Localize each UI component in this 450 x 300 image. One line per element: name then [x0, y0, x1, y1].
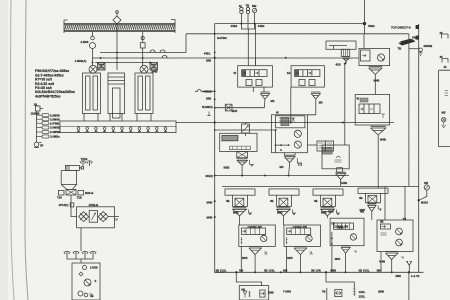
wire H2	[186, 33, 409, 35]
valve block VL2	[150, 63, 158, 71]
wire feeds to B4	[385, 186, 405, 220]
gauge G3	[253, 8, 257, 65]
servo block top right	[359, 34, 390, 67]
right edge box	[439, 70, 450, 146]
pump control box top-right	[326, 41, 356, 145]
spec text block	[35, 69, 75, 98]
solenoid block B1	[239, 225, 275, 272]
valve block M2B	[220, 133, 257, 158]
wire G2 drop	[247, 29, 249, 66]
below-bus right wire	[408, 272, 410, 300]
solenoid block B2	[284, 225, 321, 272]
wire filter to tank	[80, 228, 82, 251]
drain cascade	[297, 158, 301, 166]
node dots top	[214, 22, 367, 218]
sensor stub	[207, 112, 210, 116]
wire V0 long left vertical	[215, 24, 225, 273]
gauge G1	[240, 7, 243, 23]
T-row header line	[222, 185, 419, 187]
accumulator cylinder	[58, 165, 83, 216]
funnel VA	[260, 92, 269, 108]
gauge 40M4B with ground	[419, 48, 423, 56]
wedge connector black	[398, 39, 415, 46]
solenoid block B4	[377, 220, 413, 272]
node dots mid	[241, 122, 344, 177]
bus nodes	[235, 271, 410, 273]
terminal labels	[31, 112, 61, 139]
double box right of cascade	[308, 141, 334, 151]
wire H12	[215, 175, 349, 177]
page curl curve right	[25, 0, 28, 300]
funnel cascade	[284, 153, 301, 176]
connector T21B	[36, 106, 44, 141]
small valve block left of T4	[322, 145, 349, 172]
Y drain symbol	[406, 262, 412, 273]
breather T21B forks	[80, 161, 93, 166]
wire block left drops	[241, 246, 381, 273]
wire H6 pilot line	[215, 107, 265, 109]
relief RV0	[89, 211, 97, 223]
bus labels	[216, 268, 420, 278]
node PC	[344, 63, 346, 65]
filter F1 above cooler	[116, 13, 118, 27]
terminal rows	[37, 114, 50, 138]
funnel VB	[311, 92, 320, 115]
page curl curve left	[11, 0, 14, 300]
oil cooler C1	[64, 24, 175, 32]
bus line bottom	[215, 271, 424, 273]
node dots top manifold	[92, 52, 152, 64]
valve block VB	[291, 66, 325, 123]
sensor 1P18	[70, 203, 74, 207]
cylinder CY2	[108, 73, 125, 114]
mid-right valve block	[355, 94, 389, 125]
pump unit box	[72, 263, 100, 300]
wire H9	[215, 129, 276, 131]
cylinder CY3	[140, 65, 148, 73]
funnel PC	[343, 56, 350, 63]
check valves row	[77, 127, 167, 131]
valve block VL1	[98, 63, 106, 71]
valve M25	[225, 104, 232, 111]
wire right verticals	[409, 24, 419, 272]
right edge strip bracket 25	[442, 34, 449, 39]
wire manifold top	[100, 52, 186, 54]
wire connector bus	[36, 111, 38, 141]
T section T3	[313, 189, 343, 218]
T-row drains	[249, 206, 382, 216]
filter box 1Z0B	[77, 207, 119, 228]
below-bus left group	[236, 272, 268, 300]
filter FL2	[98, 212, 108, 222]
gauge G2	[241, 7, 254, 29]
cascade block W	[272, 115, 316, 153]
node dots cascade	[275, 144, 290, 151]
valve M20-B	[66, 189, 76, 195]
node M202	[418, 199, 420, 201]
wire H1 top	[186, 0, 409, 272]
gauge right box	[442, 118, 446, 122]
T section T2	[269, 189, 299, 225]
cylinder CY1	[89, 65, 97, 73]
wire PC drop	[345, 61, 346, 145]
tank breather row	[64, 252, 96, 264]
right edge strip bracket 45	[442, 59, 448, 63]
below-bus mid group	[326, 272, 356, 300]
funnel servo	[369, 66, 382, 94]
wire H4 into VB	[241, 58, 255, 66]
gauge M5 right	[419, 185, 430, 200]
valve 2-M09 left	[91, 36, 95, 40]
wire hose arcs	[150, 50, 165, 53]
funnel mid-right	[371, 126, 386, 188]
page curl shade	[0, 0, 8, 300]
valve right stack	[142, 36, 144, 43]
wire valve drop	[71, 195, 77, 217]
wire H5 stub	[176, 89, 394, 175]
pilot valve PC	[341, 49, 349, 56]
T section T1	[225, 189, 255, 225]
relief valve RV1	[242, 123, 250, 137]
funnel M2B	[237, 159, 254, 176]
funnel inner strokes	[235, 59, 396, 256]
wire filter out	[108, 216, 119, 218]
pump symbol bottom of ladder	[34, 141, 42, 148]
wire V junction 40B2	[364, 0, 366, 34]
wire riser from H2	[185, 34, 187, 53]
funnel small block	[336, 172, 346, 186]
wire cooler drops	[93, 27, 143, 70]
check valve manifold box	[60, 121, 176, 133]
tick marks on right vertical	[416, 25, 419, 29]
drain M2B	[250, 160, 254, 166]
T section T4	[358, 188, 388, 220]
wire cylinder legs	[84, 114, 151, 122]
wire H7 long	[176, 122, 394, 124]
filter FL1	[79, 212, 89, 222]
solenoid block B3	[330, 218, 364, 272]
valve block VA	[238, 66, 273, 92]
